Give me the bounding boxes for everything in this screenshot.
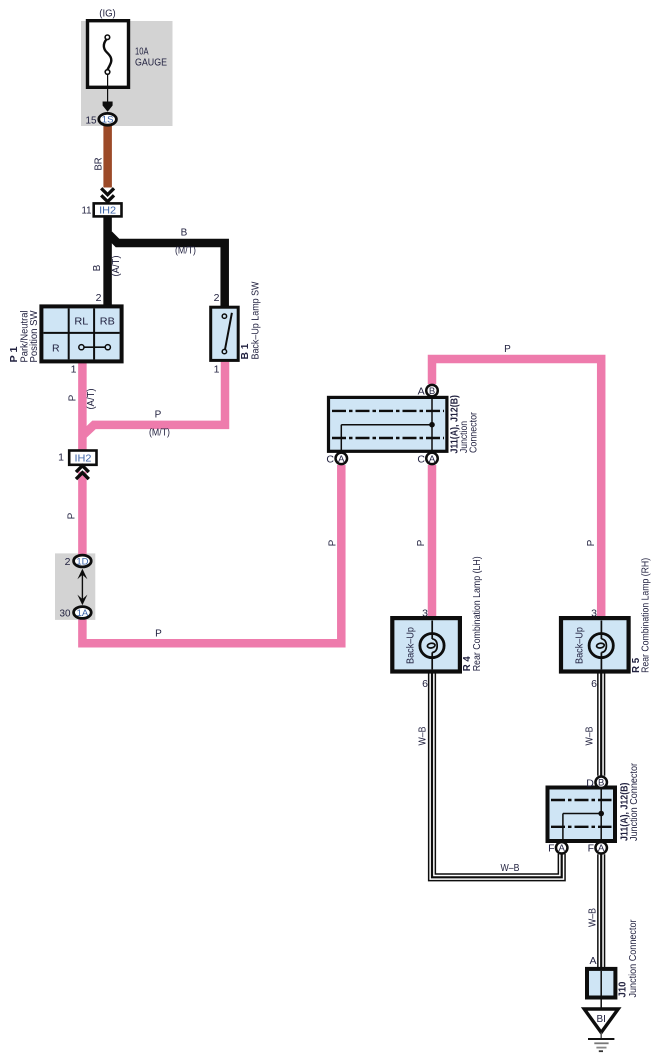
svg-text:IH2: IH2: [75, 454, 92, 465]
svg-text:W–B: W–B: [588, 908, 599, 927]
wire pink P from P1 pin 1 down to IH2-1: [78, 362, 87, 451]
svg-text:GAUGE: GAUGE: [135, 58, 167, 69]
svg-text:IH2: IH2: [99, 206, 116, 217]
wire W-B from R5 pin 6 down to D(B): [597, 672, 605, 776]
svg-text:(IG): (IG): [99, 8, 116, 20]
connector IH2 (1): [69, 451, 96, 465]
svg-text:(A/T): (A/T): [86, 389, 97, 410]
svg-text:1: 1: [71, 364, 77, 376]
svg-text:2: 2: [214, 292, 220, 304]
svg-text:2: 2: [65, 556, 71, 568]
svg-text:1S: 1S: [102, 115, 114, 126]
svg-text:P: P: [504, 344, 511, 355]
junction connector J11(A),J12(B) lower: [548, 788, 616, 842]
arrow up toward 1D: [77, 569, 87, 580]
svg-text:15: 15: [86, 115, 97, 127]
connector 1A oval: [74, 607, 92, 619]
svg-text:B: B: [181, 228, 188, 239]
wire thin from J10 to ground triangle: [600, 998, 602, 1010]
gray background panel (connector 1D/1A block): [55, 553, 95, 620]
svg-text:P: P: [586, 539, 597, 546]
component J10 junction connector: [587, 969, 615, 998]
wire black B from IH2-11 down to P1 pin 2: [103, 216, 112, 307]
svg-text:(M/T): (M/T): [175, 246, 196, 257]
svg-text:(A/T): (A/T): [111, 256, 122, 277]
component R4 Rear Combination Lamp LH: [392, 618, 460, 671]
wire pink P below IH2-1 to connector 1D: [78, 472, 87, 555]
svg-text:F: F: [588, 843, 594, 855]
svg-text:1A: 1A: [77, 608, 89, 619]
connector IH2 (11): [94, 203, 122, 216]
svg-text:10A: 10A: [135, 47, 149, 58]
svg-text:BI: BI: [596, 1014, 605, 1025]
svg-text:P: P: [68, 394, 79, 401]
component P1 Park/Neutral Position SW: [41, 306, 121, 361]
svg-text:C: C: [417, 453, 425, 465]
wire pink P from 1A down, along bottom, up to junction C(A) left: [82, 465, 341, 643]
svg-text:Connector: Connector: [469, 411, 480, 453]
svg-text:6: 6: [422, 678, 428, 690]
svg-text:Back–Up: Back–Up: [575, 627, 586, 664]
svg-text:Back–Up Lamp SW: Back–Up Lamp SW: [251, 281, 262, 359]
svg-text:W–B: W–B: [418, 726, 429, 745]
svg-text:A: A: [429, 454, 436, 465]
svg-text:RL: RL: [74, 316, 88, 328]
svg-text:J10: J10: [617, 981, 629, 997]
connector 1D oval: [74, 555, 92, 567]
svg-text:C: C: [326, 453, 334, 465]
svg-text:1: 1: [58, 452, 64, 464]
svg-text:1D: 1D: [76, 556, 88, 567]
svg-text:P: P: [155, 410, 162, 421]
gray background panel (fuse block): [81, 21, 173, 126]
wire thin from fuse to arrow: [107, 74, 109, 102]
arrow down toward 1A: [77, 595, 87, 606]
svg-text:BR: BR: [94, 158, 105, 171]
chevrons into IH2-11: [101, 188, 114, 201]
svg-text:A: A: [589, 955, 596, 967]
fuse 10A GAUGE: [88, 21, 168, 88]
svg-text:W–B: W–B: [501, 863, 520, 874]
svg-text:D: D: [586, 777, 594, 789]
svg-text:P: P: [416, 539, 427, 546]
svg-text:B 1: B 1: [239, 343, 251, 359]
wire pink P from junction C(A) right down to R4 pin 3: [428, 465, 437, 619]
svg-text:30: 30: [60, 608, 71, 620]
svg-text:Junction Connector: Junction Connector: [629, 762, 640, 841]
wire black B (M/T) branch to B1 pin 2: [109, 235, 225, 308]
component R5 Rear Combination Lamp RH: [561, 618, 629, 671]
svg-text:F: F: [548, 843, 554, 855]
wire brown BR from fuse 1S to IH2: [103, 126, 112, 188]
wire pink P from junction B pin up, across top, down to R5 pin 3: [432, 359, 601, 619]
svg-text:6: 6: [591, 678, 597, 690]
svg-text:Rear Combination Lamp (LH): Rear Combination Lamp (LH): [472, 556, 483, 671]
ground point BI triangle: [584, 1009, 618, 1033]
svg-text:W–B: W–B: [585, 726, 596, 745]
svg-text:11: 11: [82, 205, 92, 217]
svg-text:B: B: [92, 264, 103, 271]
svg-text:R: R: [52, 343, 60, 355]
svg-text:2: 2: [96, 292, 102, 304]
svg-text:Rear Combination Lamp (RH): Rear Combination Lamp (RH): [641, 558, 652, 673]
component B1 Back-Up Lamp SW: [211, 307, 239, 360]
wire W-B from R4 pin 6 down, right, up to F(A) left: [432, 672, 562, 878]
wire pink P (M/T) from B1 pin 1 joining vertical: [82, 361, 225, 436]
svg-text:B: B: [429, 386, 435, 397]
junction connector J11(A),J12(B) upper: [329, 397, 447, 451]
svg-text:Position SW: Position SW: [29, 310, 40, 363]
connector 1S oval: [99, 113, 117, 125]
chevrons below IH2-1 pointing up: [76, 466, 89, 479]
wire W-B from F(A) right down to J10 pin A: [597, 854, 605, 969]
svg-text:1: 1: [214, 364, 220, 376]
arrow into connector 1S: [103, 102, 113, 112]
link line: [81, 574, 83, 600]
ground symbol: [600, 1033, 602, 1040]
svg-text:P: P: [328, 539, 339, 546]
svg-text:A: A: [418, 386, 425, 398]
svg-text:B: B: [598, 778, 604, 789]
svg-text:A: A: [598, 843, 605, 854]
svg-text:(M/T): (M/T): [149, 428, 170, 439]
svg-text:P: P: [155, 629, 162, 640]
svg-text:P 1: P 1: [8, 346, 20, 362]
svg-text:Junction Connector: Junction Connector: [628, 919, 639, 998]
svg-text:A: A: [338, 454, 345, 465]
svg-text:RB: RB: [100, 316, 115, 328]
svg-text:A: A: [559, 843, 566, 854]
svg-text:Back–Up: Back–Up: [406, 627, 417, 664]
svg-text:P: P: [67, 512, 78, 519]
